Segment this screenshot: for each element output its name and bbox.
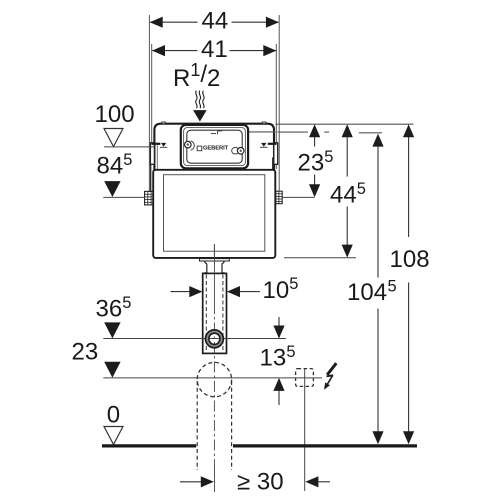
water level mark left inside body [161, 143, 166, 147]
svg-text:10: 10 [263, 277, 290, 304]
wall bracket right [274, 143, 278, 165]
level line 36.5 [103, 338, 286, 340]
protection box outer [153, 170, 275, 258]
right body tick at 100 level [274, 146, 277, 148]
svg-text:5: 5 [324, 148, 333, 166]
panel right screw circle [237, 148, 244, 155]
inspection panel inner plate [187, 130, 242, 163]
level line 23 [103, 377, 322, 379]
box center tick [213, 245, 215, 258]
water supply wavy lines [196, 91, 205, 109]
svg-text:44: 44 [330, 182, 357, 209]
dimension 23.5 [314, 137, 316, 147]
threaded rod left [145, 191, 155, 205]
flush bend flange [200, 259, 230, 261]
top reference line (108 level) [276, 123, 414, 125]
floor line left segment [102, 444, 196, 447]
svg-text:104: 104 [347, 279, 387, 306]
dimension 10.5 [171, 291, 202, 293]
floor line right segment [233, 444, 417, 447]
svg-text:5: 5 [123, 151, 132, 169]
svg-text:5: 5 [122, 294, 131, 312]
pipe centerline [213, 244, 215, 303]
svg-text:36: 36 [96, 295, 123, 322]
dimension 44.5 [346, 137, 348, 177]
svg-text:108: 108 [390, 246, 430, 273]
flush bend collar [205, 261, 224, 272]
svg-text:5: 5 [289, 275, 298, 293]
dimension line 41 [152, 50, 276, 52]
cistern body outline [154, 124, 274, 176]
svg-text:0: 0 [107, 401, 120, 428]
svg-text:GEBERIT: GEBERIT [203, 145, 229, 151]
dimension 41 extension line right [275, 44, 277, 169]
water supply arrow [193, 110, 207, 122]
svg-text:100: 100 [95, 101, 135, 128]
wall bracket left [150, 143, 154, 165]
svg-text:41: 41 [201, 36, 228, 63]
lightning bolt [324, 363, 336, 390]
dimension 108 [408, 137, 410, 237]
svg-text:5: 5 [357, 180, 366, 198]
drain dashed pipe walls [196, 381, 198, 470]
reference dash line (104.5 level) [249, 131, 276, 133]
svg-text:84: 84 [97, 152, 124, 179]
dimension 104.5 [377, 146, 379, 278]
dimension 44 extension line right [278, 15, 280, 191]
dimension 44 extension line left [148, 15, 150, 191]
svg-text:≥ 30: ≥ 30 [237, 469, 284, 496]
svg-text:44: 44 [202, 8, 229, 35]
panel top marks [211, 133, 216, 135]
inspection panel outer frame [181, 125, 248, 168]
reference line 44.5 bottom [284, 257, 356, 259]
level line 84.5 right [282, 196, 315, 198]
dimension line 44 [150, 21, 278, 23]
dimension >=30 [214, 464, 216, 492]
svg-text:5: 5 [286, 343, 295, 361]
svg-text:13: 13 [260, 345, 287, 372]
electrical connection vertical line [304, 369, 306, 491]
inspection panel middle frame [184, 128, 246, 166]
electrical connection dashed box [296, 369, 314, 387]
svg-text:23: 23 [298, 150, 325, 177]
svg-text:5: 5 [388, 277, 397, 295]
panel left screw circle [185, 141, 192, 148]
threaded rod right [276, 191, 283, 204]
panel right piece [232, 148, 239, 154]
panel bulge [191, 141, 195, 150]
dimension 41 extension line left [151, 44, 153, 143]
drain dashed circle [197, 362, 231, 396]
protection box inner [164, 175, 265, 252]
lid bump left [162, 122, 166, 124]
dimension 13.5 [278, 317, 280, 327]
svg-text:23: 23 [72, 338, 99, 365]
outlet circle [206, 330, 224, 348]
geberit logo square [197, 146, 202, 151]
flush pipe [203, 273, 227, 353]
water level mark right inside body [261, 143, 266, 147]
flush pipe inner dashed walls [205, 275, 207, 353]
lid bump right [262, 122, 266, 124]
